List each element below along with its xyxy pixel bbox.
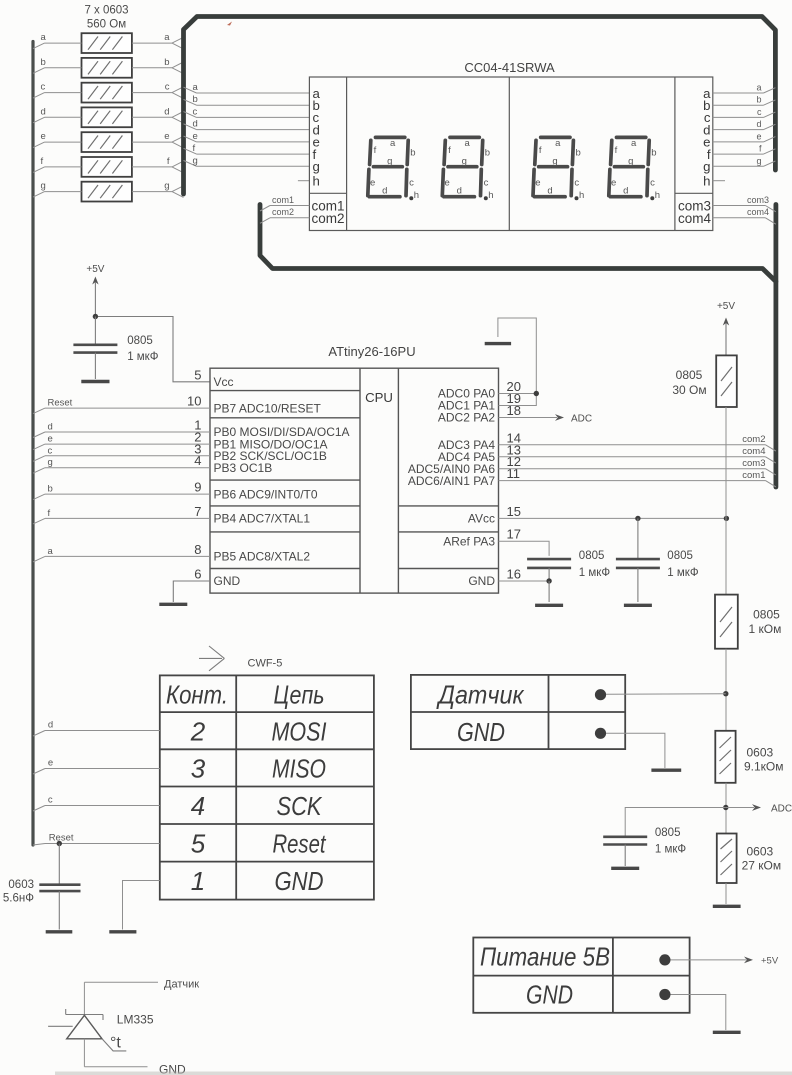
svg-text:Reset: Reset	[48, 398, 73, 409]
wire junction to ground	[548, 581, 550, 602]
svg-text:0603: 0603	[747, 746, 774, 760]
ground (Датчик table)	[651, 769, 681, 772]
svg-text:b: b	[756, 95, 761, 105]
svg-text:+5V: +5V	[717, 301, 735, 312]
svg-text:g: g	[462, 156, 467, 167]
wire c from R3 to segment bus	[132, 82, 184, 99]
resistor R6 560 Ом	[82, 157, 132, 177]
svg-text:ADC6/AIN1 PA7: ADC6/AIN1 PA7	[408, 474, 495, 488]
wire a from left bus to R1	[33, 32, 82, 49]
svg-text:Цепь: Цепь	[274, 680, 325, 710]
svg-text:f: f	[167, 156, 170, 167]
wire g from R7 to segment bus	[132, 181, 184, 198]
capacitor C1 0805 1 мкФ	[73, 317, 117, 380]
power +5V (right rail)	[717, 301, 735, 355]
wire com2 from com bus to display	[260, 207, 309, 223]
ground (under C5)	[46, 930, 73, 933]
segment bus (a-g feed around display)	[184, 17, 776, 195]
svg-text:Питание 5В: Питание 5В	[480, 942, 610, 972]
svg-text:SCK: SCK	[277, 791, 323, 821]
wire d from left bus to X1	[33, 720, 160, 737]
wire a from R1 to segment bus	[132, 32, 184, 49]
svg-text:Датчик: Датчик	[436, 680, 525, 710]
svg-text:h: h	[488, 190, 493, 201]
ground (pin 16)	[535, 604, 563, 607]
svg-text:6: 6	[194, 567, 201, 582]
wire f from R6 to segment bus	[132, 156, 184, 173]
svg-text:a: a	[193, 82, 199, 93]
wire e from R5 to segment bus	[132, 131, 184, 148]
svg-text:1 мкФ: 1 мкФ	[667, 567, 699, 579]
wire Reset from left bus to X1	[33, 833, 160, 846]
wire g from display pin g (right) to segment bus	[713, 156, 776, 167]
contact 3 MISO	[191, 754, 326, 784]
capacitor C2 0805 1 мкФ	[527, 559, 571, 581]
value label R9 0805 1 кОм	[749, 608, 782, 636]
svg-text:+5V: +5V	[86, 264, 104, 275]
svg-text:b: b	[575, 148, 580, 159]
wire f from display pin f (right) to segment bus	[713, 144, 776, 155]
wire AVcc junction to R9	[725, 518, 727, 594]
svg-text:ADC: ADC	[771, 804, 792, 815]
svg-text:e: e	[193, 131, 198, 142]
wire a from left bus to CPU	[33, 546, 210, 562]
wire com1 from CPU to com bus	[499, 470, 776, 487]
contact 4 SCK	[191, 791, 323, 821]
wire Датчик pin to divider node	[606, 693, 726, 696]
svg-text:g: g	[552, 156, 557, 167]
svg-text:c: c	[574, 178, 579, 189]
svg-text:CWF-5: CWF-5	[248, 658, 283, 670]
arrow +5V (X3)	[671, 955, 779, 966]
contact 2 MOSI	[190, 717, 327, 747]
svg-text:g: g	[41, 181, 46, 192]
stub display pin h (left)	[298, 180, 310, 182]
svg-text:ADC2 PA2: ADC2 PA2	[438, 411, 495, 425]
svg-text:f: f	[539, 145, 542, 156]
junction GND16/C2	[546, 578, 551, 583]
svg-text:PB3 OC1B: PB3 OC1B	[214, 461, 273, 475]
diode/zener VD1 LM335	[48, 1009, 126, 1051]
wire pin 19 ADC1 with hook to bar	[498, 318, 536, 406]
wire b from R2 to segment bus	[132, 57, 184, 74]
svg-text:CC04-41SRWA: CC04-41SRWA	[464, 60, 555, 75]
svg-text:g: g	[48, 457, 53, 468]
svg-text:0805: 0805	[753, 608, 780, 622]
svg-text:com4: com4	[742, 446, 765, 457]
ground (under C3)	[624, 604, 652, 607]
svg-text:1: 1	[191, 866, 205, 896]
svg-text:com2: com2	[272, 207, 294, 217]
wire com2 from CPU to com bus	[499, 434, 776, 451]
pin circle GND (X3)	[659, 989, 670, 1000]
wire R9 to Датчик junction	[725, 649, 727, 731]
value label C1 0805 1 мкФ	[127, 335, 159, 363]
power +5V (left)	[86, 264, 104, 317]
wire e from left bus to CPU	[33, 434, 210, 450]
svg-text:ATtiny26-16PU: ATtiny26-16PU	[328, 344, 415, 359]
wire c from segment bus to display pin c	[184, 106, 310, 117]
wire b from left bus to R2	[33, 57, 82, 74]
wire d from left bus to CPU	[33, 422, 210, 438]
wire d from left bus to R4	[33, 106, 82, 123]
wire g from segment bus to display pin g	[184, 155, 310, 166]
svg-text:h: h	[655, 190, 660, 201]
svg-text:b: b	[41, 57, 46, 68]
svg-text:0805: 0805	[579, 550, 605, 562]
seven-segment digit 1	[368, 137, 419, 201]
wire X1 GND to ground	[123, 881, 160, 930]
pin circle Датчик	[595, 689, 606, 700]
junction +5V/C1	[93, 314, 98, 319]
svg-text:a: a	[390, 138, 396, 149]
svg-text:8: 8	[194, 542, 201, 557]
svg-text:GND: GND	[275, 866, 324, 896]
wire b from display pin b (right) to segment bus	[713, 95, 776, 106]
wire f from left bus to R6	[33, 156, 82, 173]
svg-text:GND: GND	[468, 574, 495, 588]
svg-text:27 кОм: 27 кОм	[742, 859, 782, 873]
svg-text:e: e	[445, 178, 450, 189]
svg-text:b: b	[485, 148, 490, 159]
wire c from display pin c (right) to segment bus	[713, 107, 776, 118]
svg-text:AVcc: AVcc	[468, 512, 495, 526]
wire pin 20 ADC0	[499, 393, 537, 395]
connector X2 Датчик/GND table	[411, 675, 625, 749]
svg-text:10: 10	[187, 394, 201, 409]
wire c from left bus to R3	[33, 82, 82, 99]
svg-text:LM335: LM335	[117, 1013, 154, 1027]
svg-text:e: e	[370, 178, 375, 189]
svg-text:Конт.: Конт.	[166, 680, 228, 710]
svg-text:9: 9	[194, 480, 201, 495]
svg-text:30 Ом: 30 Ом	[672, 383, 706, 397]
op IC U1 ATtiny26-16PU box	[210, 368, 499, 593]
connector X3 Питание 5В/GND table	[473, 938, 689, 1013]
svg-text:+5V: +5V	[761, 955, 779, 966]
svg-text:9.1кОм: 9.1кОм	[744, 760, 784, 774]
wire e from left bus to R5	[33, 131, 82, 148]
svg-text:d: d	[41, 106, 46, 117]
svg-text:d: d	[164, 106, 169, 117]
svg-text:15: 15	[507, 504, 521, 519]
svg-text:0603: 0603	[747, 845, 774, 859]
junction ADC node	[723, 805, 728, 810]
wire GND pin 6 to ground	[173, 581, 210, 602]
ground (X3)	[713, 1031, 741, 1034]
svg-text:g: g	[756, 156, 761, 166]
svg-text:GND: GND	[457, 717, 505, 747]
svg-text:com3: com3	[742, 458, 765, 469]
svg-text:g: g	[703, 159, 710, 174]
svg-text:0805: 0805	[676, 368, 703, 382]
svg-text:4: 4	[191, 791, 205, 821]
svg-text:a: a	[41, 32, 47, 43]
wire R10 to ADC junction	[725, 783, 727, 834]
resistor R9 0805 1 кОм	[715, 595, 738, 649]
svg-text:Датчик: Датчик	[164, 979, 199, 991]
wire a from display pin a (right) to segment bus	[713, 83, 776, 94]
svg-text:5: 5	[194, 367, 201, 382]
svg-text:f: f	[448, 145, 451, 156]
svg-text:b: b	[164, 57, 169, 68]
svg-text:PB7 ADC10/RESET: PB7 ADC10/RESET	[214, 401, 322, 415]
wire g from left bus to CPU	[33, 457, 210, 473]
value label R10 0603 9.1кОм	[744, 746, 784, 774]
svg-text:g: g	[387, 156, 392, 167]
svg-text:ADC: ADC	[571, 414, 592, 425]
junction pin 20	[534, 391, 539, 396]
svg-text:0805: 0805	[655, 827, 681, 839]
wire Датчик (LM335 top)	[84, 979, 199, 1015]
svg-text:e: e	[164, 131, 169, 142]
svg-text:f: f	[615, 145, 618, 156]
wire c from left bus to CPU	[33, 445, 210, 461]
svg-text:g: g	[628, 156, 633, 167]
svg-text:com3: com3	[747, 195, 769, 205]
svg-text:ARef PA3: ARef PA3	[443, 534, 495, 548]
wire com3 from display to com bus	[713, 195, 776, 212]
wire GND pin 16	[499, 580, 550, 582]
capacitor C4 0805 1 мкФ	[603, 837, 647, 866]
resistor R4 560 Ом	[82, 107, 132, 127]
svg-text:MISO: MISO	[272, 754, 326, 784]
pin circle GND	[595, 728, 606, 739]
svg-text:c: c	[48, 445, 53, 456]
svg-text:b: b	[193, 94, 198, 105]
wire e from display pin e (right) to segment bus	[713, 131, 776, 142]
svg-text:a: a	[164, 32, 170, 43]
svg-text:e: e	[611, 178, 616, 189]
wire GND pin to ground	[606, 733, 665, 768]
value label R11 0603 27 кОм	[742, 845, 782, 873]
svg-text:0805: 0805	[127, 335, 153, 347]
svg-text:17: 17	[507, 527, 521, 542]
svg-text:g: g	[193, 155, 198, 166]
svg-text:1 кОм: 1 кОм	[749, 622, 782, 636]
svg-text:b: b	[48, 484, 53, 495]
wire g from left bus to R7	[33, 181, 82, 198]
junction AVcc/rail	[724, 516, 729, 521]
value label C3 0805 1 мкФ	[667, 550, 699, 579]
svg-text:h: h	[313, 174, 320, 189]
svg-text:c: c	[48, 795, 53, 806]
resistor R11 0603 27 кОм	[717, 834, 737, 884]
wire com1 from com bus to display	[260, 195, 309, 211]
svg-text:PB4 ADC7/XTAL1: PB4 ADC7/XTAL1	[214, 512, 311, 526]
display CC04-41SRWA outline	[309, 77, 712, 231]
svg-text:com1: com1	[742, 470, 765, 481]
wire a from segment bus to display pin a	[184, 82, 310, 93]
svg-text:g: g	[164, 181, 169, 192]
wire e from left bus to X1	[33, 758, 160, 775]
ground (under C4)	[611, 867, 639, 870]
svg-text:h: h	[414, 190, 419, 201]
svg-text:1 мкФ: 1 мкФ	[579, 567, 611, 579]
svg-text:e: e	[535, 178, 540, 189]
wire R11 to ground	[725, 883, 727, 904]
svg-text:d: d	[48, 720, 53, 731]
pin circle Питание	[659, 954, 670, 965]
svg-text:f: f	[41, 156, 44, 167]
connector arrow symbol	[199, 646, 224, 671]
wire com4 from display to com bus	[713, 207, 776, 224]
svg-text:e: e	[41, 131, 46, 142]
svg-text:d: d	[193, 119, 198, 130]
svg-text:1 мкФ: 1 мкФ	[127, 351, 159, 363]
svg-text:e: e	[48, 758, 53, 769]
wire c from left bus to X1	[33, 795, 160, 812]
wire Reset from left bus to CPU	[33, 398, 210, 414]
svg-text:GND: GND	[214, 574, 241, 588]
svg-text:7 x 0603: 7 x 0603	[84, 5, 128, 17]
ground (X1 GND)	[109, 930, 136, 933]
svg-text:c: c	[193, 106, 198, 117]
svg-text:MOSI: MOSI	[272, 717, 327, 747]
value label C5 0603 5.6нФ	[3, 879, 34, 905]
svg-text:f: f	[48, 508, 51, 519]
svg-text:b: b	[410, 148, 415, 159]
svg-text:1 мкФ: 1 мкФ	[655, 844, 687, 856]
capacitor C5 0603 5.6нФ	[39, 844, 80, 930]
resistor R1 560 Ом	[82, 33, 132, 53]
junction Датчик node	[723, 691, 728, 696]
wire +5V to Vcc pin 5	[95, 317, 210, 382]
svg-text:°t: °t	[110, 1035, 121, 1052]
seven-segment digit 4	[609, 137, 660, 201]
svg-text:0603: 0603	[8, 879, 34, 891]
contact 1 GND	[191, 866, 324, 896]
left signal bus	[31, 42, 34, 846]
svg-text:b: b	[651, 148, 656, 159]
contact 5 Reset	[191, 829, 327, 859]
svg-text:5.6нФ: 5.6нФ	[3, 893, 34, 905]
svg-text:d: d	[547, 186, 552, 197]
bar terminator (pins 19/20 net)	[485, 342, 511, 345]
junction AVcc/C3	[635, 516, 640, 521]
wire GND (LM335 bottom)	[84, 1039, 186, 1075]
svg-text:PB6 ADC9/INT0/T0: PB6 ADC9/INT0/T0	[214, 487, 318, 501]
svg-text:a: a	[756, 83, 761, 93]
svg-text:7: 7	[194, 504, 201, 519]
svg-text:h: h	[579, 190, 584, 201]
wire b from left bus to CPU	[33, 484, 210, 500]
value label C4 0805 1 мкФ	[655, 827, 687, 856]
svg-text:com2: com2	[312, 211, 345, 226]
svg-text:f: f	[374, 145, 377, 156]
svg-text:560 Ом: 560 Ом	[87, 19, 126, 31]
capacitor C3 0805 1 мкФ	[616, 518, 660, 602]
svg-text:c: c	[757, 107, 762, 117]
wire X3 GND to ground	[671, 995, 726, 1031]
resistor R5 560 Ом	[82, 132, 132, 152]
wire e from segment bus to display pin e	[184, 131, 310, 142]
resistor R8 0805 30 Ом	[716, 355, 737, 407]
svg-text:f: f	[193, 143, 196, 154]
resistor R3 560 Ом	[82, 83, 132, 103]
wire R8 to AVcc junction	[725, 407, 727, 518]
svg-text:5: 5	[191, 829, 206, 859]
wire d from R4 to segment bus	[132, 106, 184, 123]
stub display pin h (right)	[713, 180, 725, 182]
svg-text:com2: com2	[742, 434, 765, 445]
wire com4 from CPU to com bus	[499, 446, 776, 463]
svg-text:d: d	[48, 422, 53, 433]
seven-segment digit 2	[442, 137, 493, 201]
svg-text:Vcc: Vcc	[214, 375, 234, 389]
svg-text:Reset: Reset	[273, 829, 327, 859]
scan artifact bottom	[55, 1072, 792, 1075]
svg-text:c: c	[484, 178, 489, 189]
wire f from left bus to CPU	[33, 508, 210, 524]
svg-text:h: h	[703, 174, 710, 189]
value label R8 0805 30 Ом	[672, 368, 706, 397]
ground (under R11)	[713, 905, 741, 908]
arrow ADC (bottom)	[726, 804, 792, 815]
svg-text:d: d	[623, 186, 628, 197]
svg-text:a: a	[631, 138, 637, 149]
wire d from display pin d (right) to segment bus	[713, 119, 776, 130]
com bus	[260, 205, 776, 488]
svg-text:com4: com4	[678, 211, 712, 226]
svg-text:a: a	[555, 138, 561, 149]
svg-text:CPU: CPU	[365, 390, 393, 405]
resistor R2 560 Ом	[82, 58, 132, 78]
svg-text:c: c	[650, 178, 655, 189]
svg-text:e: e	[48, 434, 53, 445]
svg-text:g: g	[313, 159, 320, 174]
svg-text:d: d	[382, 186, 387, 197]
ground (pin 6)	[159, 603, 187, 606]
svg-text:0805: 0805	[667, 550, 693, 562]
svg-text:GND: GND	[526, 980, 573, 1010]
svg-text:e: e	[756, 131, 761, 141]
svg-text:d: d	[756, 119, 761, 129]
svg-text:a: a	[48, 546, 54, 557]
wire pin 18 to ADC arrow	[499, 414, 593, 425]
svg-text:c: c	[41, 82, 46, 93]
junction Reset/C5	[57, 841, 62, 846]
svg-text:d: d	[457, 186, 462, 197]
value label C2 0805 1 мкФ	[579, 550, 611, 579]
wire d from segment bus to display pin d	[184, 119, 310, 130]
svg-text:c: c	[165, 82, 170, 93]
red scan speck	[227, 22, 232, 26]
svg-text:2: 2	[190, 717, 206, 747]
seven-segment digit 3	[533, 137, 584, 201]
svg-text:com4: com4	[747, 207, 769, 217]
wire f from segment bus to display pin f	[184, 143, 310, 154]
wire AVcc pin 15	[499, 517, 727, 519]
svg-text:PB5 ADC8/XTAL2: PB5 ADC8/XTAL2	[214, 550, 311, 564]
wire ADC junction to C4	[625, 808, 726, 837]
wire ARef pin 17 to C2	[499, 541, 550, 556]
resistor R10 0603 9.1кОм	[715, 731, 735, 783]
svg-text:com1: com1	[272, 195, 294, 205]
svg-text:a: a	[464, 138, 470, 149]
wire b from segment bus to display pin b	[184, 94, 310, 105]
svg-text:3: 3	[191, 754, 206, 784]
resistor R7 560 Ом	[82, 182, 132, 202]
connector X1 CWF-5 table	[160, 675, 374, 899]
svg-text:16: 16	[507, 567, 521, 582]
svg-text:c: c	[409, 178, 414, 189]
ground (under C1)	[81, 380, 109, 383]
wire com3 from CPU to com bus	[499, 458, 776, 475]
